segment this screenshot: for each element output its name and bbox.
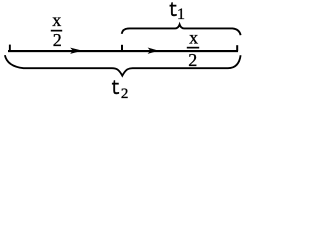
right end tick	[236, 45, 238, 51]
svg-text:t: t	[111, 77, 121, 100]
left fraction bar	[51, 30, 62, 32]
svg-text:2: 2	[188, 50, 197, 70]
svg-text:2: 2	[121, 86, 129, 100]
right fraction bar	[187, 47, 199, 49]
svg-text:2: 2	[53, 30, 62, 50]
left arrowhead	[71, 48, 81, 53]
svg-text:1: 1	[177, 6, 185, 23]
main baseline wire	[8, 50, 238, 52]
left end tick	[9, 45, 11, 52]
underbrace t2	[5, 55, 241, 75]
middle tick	[121, 45, 123, 51]
overbrace t1	[122, 24, 241, 35]
right arrowhead	[149, 48, 158, 53]
svg-text:x: x	[52, 10, 61, 30]
svg-text:x: x	[189, 28, 198, 48]
